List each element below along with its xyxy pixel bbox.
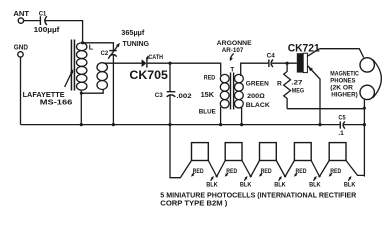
wire ANT to C1 [24,20,40,22]
svg-text:BLK: BLK [206,181,218,188]
svg-text:C4: C4 [267,53,275,60]
photocell PC4 [294,143,329,189]
svg-text:CORP TYPE B2M ): CORP TYPE B2M ) [160,198,228,207]
capacitor C4 [267,53,275,67]
svg-text:BLK: BLK [274,181,286,188]
svg-text:RED: RED [193,168,204,175]
wire secondary top to diode [104,62,142,64]
svg-text:L: L [89,45,94,52]
svg-text:RED: RED [296,168,307,175]
svg-text:100µµf: 100µµf [34,27,61,34]
transformer T primary winding [220,74,229,108]
svg-text:.002: .002 [176,93,191,100]
node junction coil top [81,41,84,44]
magnetic phones [330,58,381,100]
caption 5 miniature photocells [160,191,357,208]
wire phones bottom down [363,100,365,177]
svg-text:BLK: BLK [240,181,252,188]
transistor Q1 CK721 [288,42,321,124]
svg-text:GND: GND [14,43,28,52]
svg-text:.1: .1 [338,130,344,137]
terminal ANT [13,9,29,23]
svg-text:RED: RED [330,168,341,175]
svg-text:ANT: ANT [13,9,29,18]
labels GREEN 200ohm BLACK with arrow [246,80,270,109]
svg-text:CK705: CK705 [129,68,168,82]
svg-text:BLK: BLK [309,181,321,188]
transformer T secondary winding [235,74,244,108]
wire R bottom to phones bottom [287,108,364,110]
transformer L secondary winding [97,63,107,90]
wire coil top to C2 [83,43,114,50]
svg-text:.27: .27 [291,79,302,86]
svg-text:BLACK: BLACK [246,102,270,109]
labels RED 15K BLUE with arrows [199,75,217,116]
svg-text:BLK: BLK [344,181,356,188]
capacitor C1 [34,11,61,34]
wire C4 to base [272,62,297,64]
photocell PC1 [191,143,225,189]
label ARGONNE AR-107 with arrow [217,40,252,61]
wire coil bottoms junction [81,89,103,93]
svg-text:C5: C5 [338,115,345,122]
capacitor C3 .002 [155,63,192,124]
wire T secondary bottom to rail [241,107,243,125]
transformer L core [71,40,76,91]
photocell PC2 [225,143,260,189]
wire T secondary top to C4 [241,63,269,76]
capacitor C5 .1 [338,115,364,137]
transformer L primary winding [77,43,94,90]
svg-text:R: R [277,81,282,88]
svg-text:200Ω: 200Ω [247,93,265,100]
svg-text:365µµf: 365µµf [121,28,145,37]
wire diode to transformer T [148,63,221,75]
diode CK705 [129,54,168,82]
wire rail to photocell chain left [170,125,192,178]
svg-text:MAGNETIC: MAGNETIC [330,71,359,78]
wire C2 bottom to rail (crosses diode wire) [112,55,114,125]
node junctions on rail [80,123,83,126]
svg-text:HIGHER): HIGHER) [331,92,358,99]
transformer T core [230,66,234,109]
svg-text:RED: RED [261,168,272,175]
svg-text:CATH: CATH [148,54,163,61]
svg-text:AR-107: AR-107 [222,47,244,54]
photocell PC5 [329,143,365,189]
wire collector to phones [320,49,364,58]
bottom rail left segment [21,124,341,126]
svg-text:15K: 15K [201,92,214,99]
svg-text:C2: C2 [101,50,109,57]
svg-text:C3: C3 [155,92,163,99]
svg-text:TUNING: TUNING [123,39,150,48]
svg-text:BLUE: BLUE [199,109,217,116]
node junction base [286,62,289,65]
label LAFAYETTE MS-166 with arrow [23,69,74,106]
wire C1 to coil top corner [46,21,83,43]
capacitor C2 variable 365uuf tuning [101,28,150,59]
svg-text:(2K OR: (2K OR [330,85,353,92]
node junction diode output [168,62,171,65]
svg-text:C1: C1 [39,11,47,18]
svg-text:RED: RED [226,168,237,175]
svg-text:MS-166: MS-166 [40,98,73,107]
wire GND down to bottom rail [20,57,22,124]
svg-text:GREEN: GREEN [246,80,269,87]
photocell PC3 [259,143,294,189]
svg-text:CK721: CK721 [288,42,321,54]
terminal GND [14,43,28,58]
svg-text:MEG: MEG [292,87,304,94]
svg-text:T: T [230,66,234,73]
svg-text:RED: RED [204,75,216,82]
wire T primary bottom to rail [220,107,222,125]
svg-text:PHONES: PHONES [330,78,356,85]
resistor R .27 MEG [277,63,304,108]
